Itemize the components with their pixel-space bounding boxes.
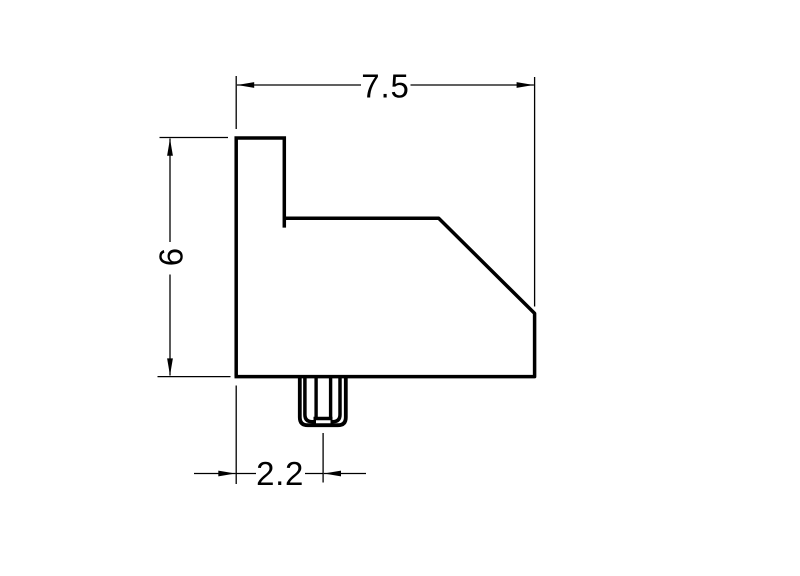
dimension 6: dimension line lower segment (169, 275, 171, 376)
pin slot right line (329, 377, 332, 419)
pin inner-left wall line (305, 377, 316, 422)
dimension 2.2: left outside tail line (194, 473, 236, 475)
dimension 6: bottom extension line (158, 376, 231, 378)
dimension 7.5: right extension line (534, 77, 536, 307)
svg-text:7.5: 7.5 (361, 68, 410, 105)
dimension 2.2: dimension line right segment (305, 473, 323, 475)
part outline: left edge, top edge, tab right edge with overshoot (236, 138, 284, 377)
svg-text:2.2: 2.2 (256, 455, 304, 492)
dimension 2.2: dimension line left segment (236, 473, 256, 475)
dimension 2.2: right extension line (322, 433, 324, 483)
part outline: step, chamfer diagonal, right edge, bottom edge (235, 218, 535, 376)
dimension 6: top arrowhead (167, 139, 173, 156)
pin slot left line (314, 377, 317, 419)
pin outer outline (rounded-bottom) (300, 377, 346, 426)
dimension 7.5: dimension line left segment (237, 84, 361, 86)
dimension 2.2: right outside arrowhead (points left) (324, 471, 341, 477)
dimension 6: bottom arrowhead (167, 358, 173, 375)
dimension 6: top extension line (160, 137, 229, 139)
dimension 7.5: right arrowhead (517, 82, 534, 88)
dimension 7.5: left arrowhead (237, 82, 254, 88)
dimension 2.2: right outside tail line (324, 473, 366, 475)
svg-text:6: 6 (153, 248, 190, 266)
dimension 2.2: left extension line (235, 386, 237, 485)
dimension 6: dimension line upper segment (169, 139, 171, 243)
dimension 7.5: left extension line (235, 76, 237, 129)
pin slot bottom line (314, 417, 333, 420)
dimension 7.5: dimension line right segment (411, 84, 534, 86)
dimension 2.2: left outside arrowhead (points right) (218, 471, 235, 477)
pin inner-right wall line (331, 377, 341, 422)
